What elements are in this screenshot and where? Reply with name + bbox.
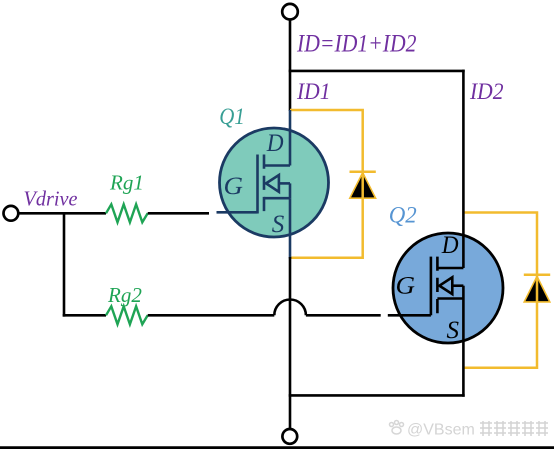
- wire: yellow body-diode loop of Q1: [290, 110, 363, 258]
- svg-text:@VBsem: @VBsem: [407, 422, 475, 439]
- svg-text:Q2: Q2: [389, 203, 417, 228]
- wire: Vdrive to Rg1: [19, 212, 107, 215]
- wire: Rg1 to Q1 gate: [148, 212, 209, 215]
- svg-text:S: S: [272, 211, 285, 238]
- wire: top terminal down to ID branch: [289, 20, 292, 112]
- node: bottom source terminal: [282, 429, 297, 444]
- svg-text:G: G: [396, 273, 416, 300]
- Q2 source stub: [437, 297, 463, 300]
- Q2 mid vertical: [462, 286, 465, 299]
- Q1 gate bar: [256, 155, 259, 214]
- Q1 drain stub: [264, 164, 290, 167]
- svg-text:S: S: [447, 317, 460, 344]
- Q2 transistor circle: [393, 233, 503, 343]
- Q1 source stub: [264, 197, 290, 200]
- Q2 channel (dashed): [436, 257, 439, 315]
- wire: Rg2 to crossover: [148, 314, 275, 317]
- bottom border line: [0, 446, 554, 449]
- Q2 body arrow: [439, 277, 452, 294]
- wire: crossover hop over drain wire: [274, 300, 306, 316]
- watermark paw icon: [390, 421, 404, 435]
- svg-text:ID=ID1+ID2: ID=ID1+ID2: [296, 28, 417, 57]
- svg-text:Q1: Q1: [219, 104, 245, 129]
- Q1 channel (dashed): [263, 155, 266, 213]
- Q2 gate bar: [430, 257, 433, 316]
- wire: Q1 drain lead: [289, 110, 292, 166]
- resistor Rg2: [106, 306, 148, 324]
- wire: Q1 gate lead: [217, 211, 258, 214]
- Q1 arrow stub: [279, 182, 290, 185]
- svg-text:Rg2: Rg2: [107, 283, 142, 307]
- node: Vdrive terminal: [3, 206, 18, 221]
- svg-text:G: G: [224, 173, 244, 200]
- Q1 body arrow: [266, 175, 279, 192]
- diode D1 cathode bar: [350, 171, 376, 174]
- Q1 transistor circle: [220, 128, 329, 237]
- mosfet symbol Q2: [431, 70, 464, 397]
- diode D2 cathode bar: [524, 274, 550, 277]
- mosfet symbol Q1: [217, 110, 291, 259]
- resistor Rg1: [106, 204, 148, 222]
- watermark hanzi strokes: [480, 421, 548, 436]
- svg-text:ID2: ID2: [469, 79, 504, 105]
- wire: bottom rail from Q2 source to main branch: [289, 394, 465, 397]
- node: top drain terminal: [282, 4, 298, 20]
- svg-text:Rg1: Rg1: [109, 170, 144, 194]
- svg-text:ID1: ID1: [296, 79, 330, 105]
- wire: crossover to Q2 gate: [306, 314, 381, 317]
- wire: Q1 source lead: [289, 198, 292, 258]
- wire: short gate stub into Q2: [388, 314, 431, 317]
- svg-text:D: D: [266, 130, 284, 157]
- wire: main vertical from Q1 source to bottom terminal: [289, 257, 292, 428]
- wire: junction to Rg2: [63, 314, 106, 317]
- wire: Q2 source lead down to bottom rail: [462, 299, 465, 397]
- Q1 mid vertical: [289, 183, 292, 198]
- Q2 arrow stub: [452, 284, 463, 287]
- wire: yellow body-diode loop of Q2: [463, 213, 537, 368]
- Q2 drain stub: [437, 267, 463, 270]
- wire: ID branch horizontal to ID2: [289, 70, 465, 73]
- wire: junction vertical down to Rg2 row: [63, 213, 66, 316]
- diode D1 (body diode of Q1): [350, 173, 376, 199]
- svg-text:D: D: [441, 232, 459, 259]
- svg-text:Vdrive: Vdrive: [24, 187, 78, 211]
- diode D2 (body diode of Q2): [524, 276, 550, 302]
- wire: ID2 vertical / Q2 drain lead: [462, 70, 465, 268]
